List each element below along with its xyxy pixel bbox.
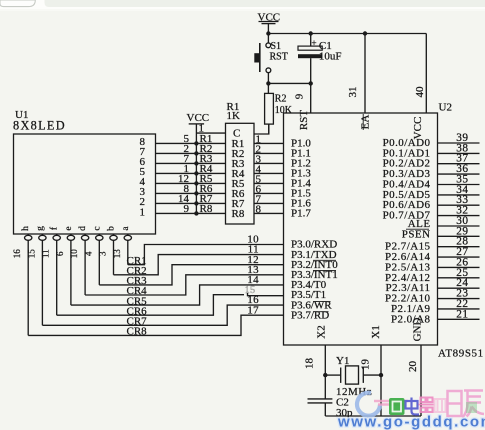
svg-text:www.go-gddq.com: www.go-gddq.com	[337, 414, 485, 430]
svg-text:EA: EA	[360, 115, 372, 130]
svg-text:b: b	[107, 226, 117, 231]
svg-text:d: d	[78, 226, 88, 231]
svg-text:PSEN: PSEN	[402, 228, 431, 240]
svg-text:1: 1	[199, 123, 205, 135]
svg-text:21: 21	[456, 308, 468, 320]
svg-text:31: 31	[347, 87, 359, 98]
svg-text:RST: RST	[270, 52, 288, 63]
svg-text:X2: X2	[316, 325, 328, 338]
svg-text:4: 4	[83, 251, 93, 256]
svg-text:10K: 10K	[275, 105, 293, 116]
svg-text:h: h	[21, 226, 31, 231]
svg-text:8X8LED: 8X8LED	[13, 119, 66, 133]
svg-text:P1.7: P1.7	[291, 208, 311, 220]
svg-text:18: 18	[304, 358, 316, 370]
svg-text:GND: GND	[412, 318, 424, 342]
svg-text:+: +	[312, 38, 317, 48]
svg-text:3: 3	[98, 251, 108, 256]
svg-text:R8: R8	[232, 208, 245, 220]
svg-text:6: 6	[55, 251, 65, 256]
svg-text:g: g	[35, 226, 45, 231]
svg-text:P3.7/RD: P3.7/RD	[291, 309, 329, 321]
svg-text:11: 11	[41, 249, 51, 258]
svg-text:1: 1	[140, 207, 146, 219]
svg-text:U2: U2	[439, 102, 452, 114]
svg-text:c: c	[92, 226, 102, 230]
svg-text:19: 19	[360, 359, 372, 371]
svg-text:Y1: Y1	[336, 355, 349, 367]
svg-text:R8: R8	[200, 203, 213, 215]
svg-text:e: e	[64, 226, 74, 230]
svg-text:X1: X1	[370, 325, 382, 338]
svg-text:13: 13	[112, 249, 122, 259]
svg-text:S1: S1	[271, 41, 282, 52]
svg-text:40: 40	[414, 86, 426, 98]
svg-text:AT89S51: AT89S51	[438, 348, 484, 360]
svg-text:15: 15	[26, 249, 36, 259]
svg-text:10uF: 10uF	[319, 51, 342, 63]
svg-text:CR8: CR8	[127, 326, 148, 338]
svg-text:9: 9	[184, 203, 190, 215]
svg-text:R2: R2	[275, 94, 287, 105]
svg-text:9: 9	[293, 93, 305, 99]
svg-text:8: 8	[256, 204, 262, 216]
svg-text:17: 17	[247, 304, 259, 316]
svg-text:1K: 1K	[227, 110, 241, 122]
svg-text:10: 10	[69, 249, 79, 259]
svg-text:16: 16	[12, 249, 22, 259]
svg-text:VCC: VCC	[258, 12, 281, 24]
svg-text:VCC: VCC	[412, 117, 424, 140]
svg-text:20: 20	[407, 361, 419, 373]
svg-text:RST: RST	[298, 110, 310, 130]
